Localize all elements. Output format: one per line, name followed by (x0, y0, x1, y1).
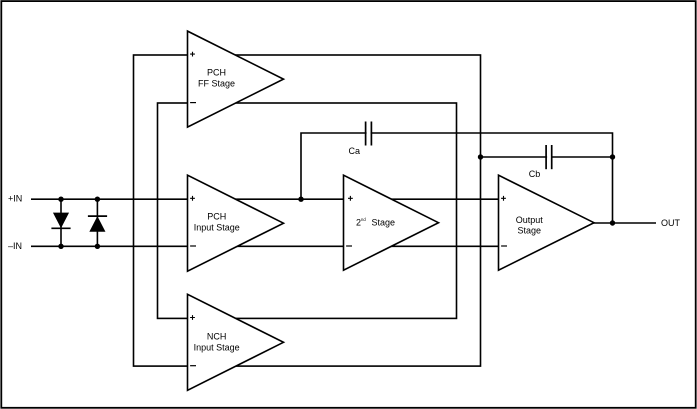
svg-text:Output: Output (516, 215, 544, 225)
op-amp 2nd Stage (344, 175, 439, 270)
wire Ca branch from node A to output node (301, 133, 613, 223)
svg-text:Input Stage: Input Stage (194, 223, 240, 233)
svg-text:FF Stage: FF Stage (198, 78, 235, 88)
node -IN / D2 (95, 244, 100, 249)
svg-text:PCH: PCH (207, 211, 226, 221)
diode D1 (anode top, cathode bottom) (51, 213, 70, 228)
wire diode D2 branch (96, 199, 98, 246)
wire diode D1 branch (60, 199, 62, 246)
node Cb left (478, 154, 483, 159)
svg-text:PCH: PCH (207, 68, 226, 78)
svg-text:NCH: NCH (207, 332, 227, 342)
wire Cb branch (481, 156, 613, 158)
node +IN / D1 (58, 197, 63, 202)
wire OUT (593, 222, 656, 224)
wire outer loop rectangle (FF + / NCH - net) (134, 55, 481, 366)
node +IN / D2 (95, 197, 100, 202)
diode D2 (cathode top, anode bottom) (88, 216, 107, 231)
wire +IN routing line (31, 198, 499, 200)
svg-text:–IN: –IN (8, 241, 22, 251)
node Cb right (610, 154, 615, 159)
svg-text:Cb: Cb (529, 169, 541, 179)
node output (610, 220, 615, 225)
capacitor Cb (546, 145, 552, 169)
capacitor Ca (366, 122, 372, 146)
op-amp Output Stage (499, 175, 595, 270)
junction dots (58, 154, 615, 249)
node -IN / D1 (58, 244, 63, 249)
wire -IN routing line (31, 245, 499, 247)
capacitor Cb gap (547, 155, 551, 159)
svg-text:+IN: +IN (8, 193, 22, 203)
op-amp PCH FF Stage (188, 31, 284, 127)
svg-text:OUT: OUT (661, 218, 681, 228)
svg-text:Input Stage: Input Stage (194, 342, 240, 352)
svg-text:Ca: Ca (349, 146, 361, 156)
node A (Ca tap) (298, 197, 303, 202)
op-amp NCH Input Stage (188, 294, 284, 390)
op-amp PCH Input Stage (188, 175, 284, 271)
capacitor Ca gap (367, 131, 371, 135)
svg-text:Stage: Stage (518, 226, 542, 236)
wire inner loop rectangle (FF - / NCH + net) (158, 103, 457, 318)
